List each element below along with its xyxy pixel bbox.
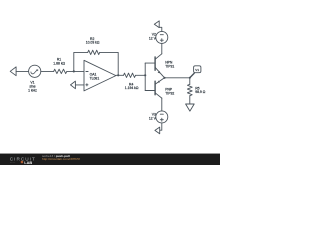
svg-text:TL081: TL081: [90, 77, 100, 81]
svg-text:TIP31: TIP31: [165, 65, 174, 69]
node junction bases: [144, 74, 146, 76]
net flag V1 stem: [190, 73, 194, 78]
node junction output: [117, 74, 119, 76]
resistor R5: [189, 78, 191, 85]
net flag V1 box: [194, 66, 201, 73]
svg-text:1.194 kΩ: 1.194 kΩ: [125, 86, 139, 90]
wire collector to V2: [161, 43, 163, 53]
ground flag input: [10, 67, 16, 76]
svg-text:----: ----: [10, 160, 16, 164]
svg-text:98.9 Ω: 98.9 Ω: [195, 90, 206, 94]
ground: [186, 104, 195, 111]
wire base vertical: [144, 63, 146, 90]
wire output: [165, 77, 190, 79]
wire: [136, 74, 146, 76]
node junction feedback-input: [73, 70, 75, 72]
svg-text:12 V: 12 V: [149, 36, 157, 40]
wire: [116, 74, 124, 76]
wire: [41, 70, 54, 72]
watermark bar: [0, 153, 220, 154]
op-amp OA1: [84, 60, 116, 91]
wire feedback left: [74, 52, 88, 71]
wire: [75, 84, 84, 86]
transistor Q1 NPN TIP31: [145, 62, 155, 64]
svg-text:http://circuitlab.com/c8f7b5f: http://circuitlab.com/c8f7b5f: [42, 157, 80, 161]
node junction load: [189, 77, 191, 79]
wire collector to V3: [161, 98, 163, 111]
svg-text:1 kHz: 1 kHz: [28, 89, 37, 93]
svg-text:12 V: 12 V: [149, 116, 157, 120]
wire feedback right: [100, 52, 119, 75]
source V1: [29, 65, 41, 77]
wire: [16, 70, 29, 72]
ground flag op-amp +: [71, 81, 76, 89]
ground flag V2: [154, 21, 159, 28]
svg-text:V1: V1: [195, 68, 199, 72]
svg-text:LAB: LAB: [24, 160, 32, 165]
resistor R1: [54, 69, 67, 73]
source V3: [156, 111, 168, 123]
svg-text:10.03 kΩ: 10.03 kΩ: [86, 41, 100, 45]
svg-text:1.88 kΩ: 1.88 kΩ: [53, 61, 65, 65]
svg-text:TIP32: TIP32: [165, 91, 174, 95]
wire: [67, 70, 84, 72]
resistor R2: [88, 50, 100, 54]
transistor Q2 PNP TIP32: [145, 90, 155, 92]
source V2: [156, 31, 168, 43]
ground flag V3: [155, 127, 160, 134]
wire V3 bottom: [160, 123, 162, 130]
node junction emitters: [163, 77, 165, 79]
resistor R4: [124, 73, 136, 77]
wire V2 top: [159, 27, 162, 31]
